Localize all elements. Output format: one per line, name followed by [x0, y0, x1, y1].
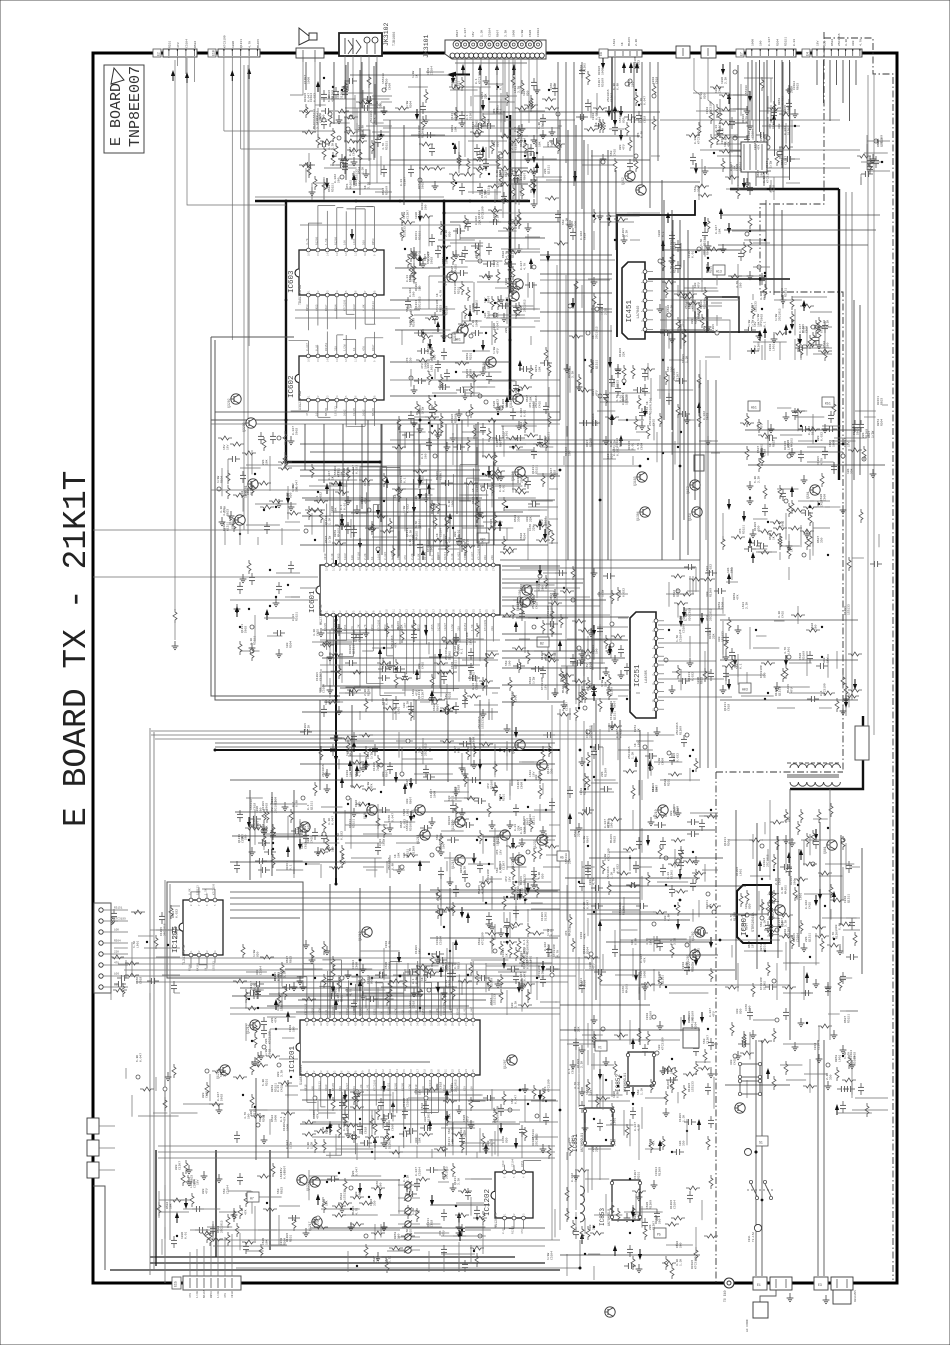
svg-text:10K: 10K — [415, 495, 418, 501]
svg-text:0.022: 0.022 — [640, 954, 643, 963]
svg-text:6.8K: 6.8K — [821, 326, 824, 333]
svg-text:1/2W: 1/2W — [774, 314, 778, 321]
svg-text:1.5K: 1.5K — [670, 266, 673, 273]
connector E7 — [746, 49, 796, 57]
svg-text:330: 330 — [515, 168, 518, 174]
svg-text:KTC3199: KTC3199 — [487, 869, 490, 882]
svg-text:R853: R853 — [701, 677, 704, 684]
svg-text:R1209: R1209 — [422, 129, 425, 138]
svg-text:C1207: C1207 — [320, 672, 323, 681]
svg-text:D602: D602 — [355, 800, 358, 807]
component cluster wires — [568, 277, 612, 338]
bold feed to IC451 — [617, 200, 695, 337]
svg-text:R3109: R3109 — [692, 1011, 695, 1020]
svg-text:R251: R251 — [781, 158, 784, 165]
wire channel y460 — [286, 465, 640, 467]
svg-text:3.3K: 3.3K — [781, 887, 784, 894]
svg-text:KTC3199: KTC3199 — [213, 883, 216, 895]
svg-text:47K: 47K — [313, 1218, 316, 1224]
svg-text:R504: R504 — [442, 257, 445, 264]
svg-text:47K: 47K — [284, 1116, 287, 1122]
svg-text:R853: R853 — [835, 1055, 838, 1062]
svg-text:0.01: 0.01 — [692, 251, 695, 258]
svg-text:0.047: 0.047 — [217, 1092, 220, 1101]
svg-text:47K: 47K — [769, 123, 772, 129]
svg-text:MA165: MA165 — [203, 1289, 206, 1298]
svg-text:1SS133: 1SS133 — [197, 885, 200, 895]
svg-text:16V: 16V — [500, 849, 503, 855]
svg-text:C455: C455 — [536, 602, 539, 609]
svg-text:1K: 1K — [592, 335, 595, 339]
svg-text:22K: 22K — [578, 831, 581, 837]
svg-text:0.022: 0.022 — [617, 447, 620, 456]
svg-text:R504: R504 — [290, 641, 293, 648]
svg-text:R607: R607 — [488, 296, 491, 303]
transistor Q1305 — [520, 597, 530, 607]
svg-text:560: 560 — [703, 1038, 706, 1044]
svg-text:C1207: C1207 — [407, 210, 410, 219]
svg-text:100: 100 — [443, 843, 446, 849]
svg-text:E10: E10 — [212, 50, 216, 56]
svg-text:0.1: 0.1 — [461, 648, 464, 654]
svg-text:R3151: R3151 — [386, 141, 389, 150]
svg-text:E BOARD: E BOARD — [108, 83, 125, 146]
svg-text:0.1: 0.1 — [670, 939, 673, 945]
svg-text:R607: R607 — [707, 248, 710, 255]
svg-text:R3109: R3109 — [332, 1007, 335, 1015]
svg-text:Q1211: Q1211 — [488, 186, 491, 195]
svg-text:330: 330 — [736, 1008, 739, 1014]
svg-text:10K: 10K — [341, 471, 344, 477]
svg-text:2SC1815: 2SC1815 — [590, 725, 593, 738]
bus wire CRT feed horizontal — [730, 188, 839, 191]
svg-text:R607: R607 — [500, 440, 503, 447]
svg-text:0.022: 0.022 — [692, 672, 695, 681]
svg-text:D602: D602 — [422, 182, 425, 189]
svg-text:C609: C609 — [806, 326, 809, 333]
svg-text:820: 820 — [704, 93, 707, 99]
svg-text:2.2K: 2.2K — [548, 437, 551, 444]
svg-text:47U: 47U — [796, 894, 799, 900]
svg-text:4.7K: 4.7K — [784, 647, 787, 654]
svg-text:R3151: R3151 — [785, 37, 788, 46]
svg-text:820: 820 — [175, 1164, 178, 1170]
svg-text:R1209: R1209 — [361, 1125, 364, 1134]
IC IC1205 — [179, 887, 223, 968]
svg-text:C3104: C3104 — [227, 1185, 230, 1194]
svg-text:R3109: R3109 — [497, 1113, 500, 1122]
svg-text:R504: R504 — [284, 1238, 287, 1245]
svg-text:560: 560 — [260, 807, 263, 813]
svg-text:47U: 47U — [497, 348, 500, 354]
component cluster wires — [664, 564, 738, 694]
svg-text:R3109: R3109 — [517, 474, 520, 483]
svg-text:R853: R853 — [442, 1172, 445, 1179]
right mid horizontals — [720, 619, 858, 621]
svg-text:C609: C609 — [325, 1084, 328, 1091]
svg-text:C1207: C1207 — [508, 249, 511, 258]
boxed net label H7 — [247, 1192, 259, 1202]
svg-text:560: 560 — [610, 150, 613, 156]
arrow left on net — [447, 73, 454, 77]
svg-text:R853: R853 — [778, 98, 781, 105]
svg-text:R3109: R3109 — [304, 93, 307, 102]
svg-text:JK3102: JK3102 — [383, 22, 390, 46]
svg-text:2SC1815: 2SC1815 — [370, 110, 373, 123]
svg-text:330: 330 — [419, 747, 422, 753]
svg-text:100: 100 — [415, 252, 418, 258]
transistor Q1306 — [522, 585, 532, 595]
svg-text:6.8K: 6.8K — [511, 887, 514, 894]
svg-text:2.2K: 2.2K — [581, 1061, 584, 1068]
svg-text:1SS133: 1SS133 — [344, 1189, 347, 1200]
svg-text:0.1: 0.1 — [292, 801, 295, 807]
svg-text:Q3183: Q3183 — [633, 476, 637, 486]
svg-text:C3104: C3104 — [655, 1167, 658, 1176]
component cluster wires — [392, 340, 553, 466]
svg-text:C818: C818 — [580, 65, 583, 72]
svg-text:47U: 47U — [593, 963, 596, 969]
svg-text:560: 560 — [443, 384, 446, 390]
svg-text:1/2W: 1/2W — [407, 1084, 411, 1091]
jack receptacle — [459, 53, 464, 58]
wires right of top transformer — [720, 214, 880, 216]
svg-text:KTC3199: KTC3199 — [425, 968, 428, 981]
svg-text:560: 560 — [542, 585, 545, 591]
svg-text:R3109: R3109 — [602, 78, 605, 87]
transistor Q1233 — [537, 835, 547, 845]
svg-text:C609: C609 — [646, 1202, 649, 1209]
svg-text:D1205: D1205 — [430, 351, 433, 360]
svg-text:R1209: R1209 — [353, 1007, 356, 1015]
svg-text:L601: L601 — [478, 624, 481, 631]
svg-text:L601: L601 — [515, 695, 518, 702]
svg-text:R504: R504 — [574, 830, 577, 837]
svg-text:6.8K: 6.8K — [613, 83, 616, 90]
svg-text:16V: 16V — [472, 31, 475, 37]
svg-text:R3109: R3109 — [386, 186, 389, 195]
svg-text:4.7K: 4.7K — [389, 941, 392, 948]
svg-text:C455: C455 — [550, 83, 553, 90]
svg-text:22K: 22K — [487, 981, 490, 987]
svg-text:MN1280-F: MN1280-F — [495, 1212, 499, 1228]
svg-text:820: 820 — [506, 1137, 509, 1143]
svg-text:R607: R607 — [325, 304, 328, 311]
svg-text:0.01: 0.01 — [284, 1172, 287, 1179]
svg-text:0.022: 0.022 — [337, 993, 340, 1002]
svg-text:3.3K: 3.3K — [845, 39, 848, 46]
svg-text:0.1: 0.1 — [403, 1176, 406, 1182]
svg-text:0.1: 0.1 — [454, 963, 457, 969]
boxed net label H01 — [452, 333, 464, 343]
svg-text:1/2W: 1/2W — [216, 1291, 220, 1298]
svg-text:D602: D602 — [421, 1103, 424, 1110]
svg-text:R1209: R1209 — [736, 867, 739, 876]
svg-text:KTC3199: KTC3199 — [378, 619, 381, 631]
svg-text:100: 100 — [521, 603, 524, 609]
svg-text:R3151: R3151 — [848, 1014, 851, 1023]
svg-text:R607: R607 — [456, 30, 459, 37]
svg-text:560: 560 — [277, 1188, 280, 1194]
svg-text:C455: C455 — [410, 1229, 413, 1236]
svg-text:C455: C455 — [311, 836, 314, 843]
svg-text:C818: C818 — [721, 137, 724, 144]
svg-text:MA165: MA165 — [628, 37, 631, 46]
svg-text:47U: 47U — [505, 876, 508, 882]
svg-text:47K: 47K — [415, 1089, 418, 1095]
svg-text:1SS133: 1SS133 — [406, 820, 409, 831]
svg-text:R607: R607 — [454, 746, 457, 753]
svg-text:560: 560 — [220, 1071, 223, 1077]
svg-text:6.8K: 6.8K — [722, 128, 725, 135]
arrows below E10 — [230, 70, 234, 76]
svg-text:16V: 16V — [227, 444, 230, 450]
svg-text:R3109: R3109 — [176, 930, 179, 939]
svg-text:R504: R504 — [728, 839, 731, 846]
svg-text:C3104: C3104 — [476, 681, 479, 690]
svg-text:R251: R251 — [418, 182, 421, 189]
svg-text:R504: R504 — [410, 101, 413, 108]
component cluster wires — [721, 499, 882, 580]
svg-text:R607: R607 — [817, 536, 820, 543]
svg-text:TDA9302PhD: TDA9302PhD — [298, 285, 303, 305]
jack pin circle — [486, 41, 494, 49]
svg-text:4.7K: 4.7K — [350, 989, 353, 996]
svg-text:820: 820 — [817, 435, 820, 441]
svg-text:MA165: MA165 — [332, 1083, 335, 1091]
svg-text:C1207: C1207 — [598, 78, 601, 87]
svg-text:10K: 10K — [311, 1086, 314, 1091]
svg-text:H5: H5 — [560, 856, 564, 860]
svg-text:C818: C818 — [554, 470, 557, 477]
component cluster wires — [302, 1081, 558, 1159]
connector E1 bottom — [753, 1277, 767, 1290]
transistor Q201 — [515, 740, 525, 750]
svg-text:D602: D602 — [520, 584, 523, 591]
svg-text:820: 820 — [257, 951, 260, 957]
svg-text:0.047: 0.047 — [634, 1122, 637, 1131]
svg-text:2.2K: 2.2K — [671, 305, 674, 312]
svg-text:0.047: 0.047 — [404, 623, 407, 631]
svg-text:47U: 47U — [698, 282, 701, 288]
svg-text:6.8K: 6.8K — [551, 140, 554, 147]
svg-text:820: 820 — [418, 408, 421, 414]
svg-text:Q1211: Q1211 — [848, 894, 851, 903]
isolation boundary dash-dot to right border — [824, 38, 893, 1280]
svg-text:4.7K: 4.7K — [328, 143, 331, 150]
svg-text:R3109: R3109 — [448, 816, 451, 825]
transistor Q3203 — [246, 418, 256, 428]
svg-text:1/2W: 1/2W — [264, 1049, 268, 1056]
svg-text:D1205: D1205 — [401, 1083, 404, 1091]
svg-text:6.8K: 6.8K — [307, 1142, 310, 1149]
svg-text:10K: 10K — [446, 258, 449, 264]
svg-text:E2: E2 — [157, 52, 161, 56]
svg-text:IC602: IC602 — [288, 375, 296, 398]
svg-text:R3151: R3151 — [785, 288, 788, 297]
svg-text:IC603: IC603 — [288, 270, 296, 293]
transistor Q1304 — [640, 507, 650, 517]
svg-text:10K: 10K — [613, 867, 616, 873]
svg-text:R3109: R3109 — [259, 1113, 262, 1122]
svg-text:C3104: C3104 — [310, 93, 313, 102]
svg-text:2SC1815: 2SC1815 — [446, 1166, 449, 1179]
svg-text:0.01: 0.01 — [578, 1082, 581, 1089]
svg-text:0.047: 0.047 — [799, 324, 802, 333]
svg-text:C1207: C1207 — [422, 690, 425, 699]
svg-text:100U: 100U — [308, 77, 311, 84]
connector E15 bottom — [183, 1276, 241, 1290]
component cluster wires — [300, 724, 558, 800]
svg-text:R504: R504 — [271, 1115, 274, 1122]
svg-text:R3109: R3109 — [598, 66, 601, 75]
svg-text:KTC3199: KTC3199 — [538, 965, 541, 978]
svg-text:E1: E1 — [757, 1283, 761, 1287]
svg-text:2.2K: 2.2K — [445, 230, 448, 237]
svg-text:100U: 100U — [493, 323, 496, 330]
svg-text:560: 560 — [493, 312, 496, 318]
resistor ladder below JK3101 — [498, 134, 512, 138]
svg-text:D1205: D1205 — [788, 126, 791, 135]
svg-text:R1209: R1209 — [466, 369, 469, 378]
svg-text:L601: L601 — [137, 941, 140, 948]
svg-text:R607: R607 — [748, 941, 751, 948]
svg-text:D1205: D1205 — [389, 1140, 392, 1149]
svg-text:47K: 47K — [493, 108, 496, 114]
svg-text:1SS133: 1SS133 — [494, 994, 497, 1005]
svg-text:100U: 100U — [232, 41, 235, 48]
svg-text:16V: 16V — [817, 40, 820, 46]
jack receptacle — [450, 53, 455, 58]
svg-text:6.8K: 6.8K — [635, 938, 638, 945]
svg-text:560: 560 — [736, 663, 739, 669]
boxed net label K51 — [822, 397, 834, 407]
svg-text:0.022: 0.022 — [346, 987, 349, 996]
svg-text:R251: R251 — [458, 287, 461, 294]
svg-text:4.7K: 4.7K — [557, 950, 560, 957]
transformer T801 windings — [787, 763, 840, 786]
svg-text:47U: 47U — [421, 363, 424, 369]
svg-text:R504: R504 — [172, 911, 175, 918]
svg-text:16V: 16V — [471, 1086, 474, 1091]
svg-text:Q3103: Q3103 — [453, 331, 457, 341]
svg-text:KTC3199: KTC3199 — [658, 971, 661, 984]
E12 pin — [99, 963, 103, 967]
svg-text:0.01: 0.01 — [292, 614, 295, 621]
wire mid horizontals y380-460 — [390, 379, 560, 381]
svg-text:0.022: 0.022 — [407, 504, 410, 513]
svg-text:R251: R251 — [271, 797, 274, 804]
svg-text:Q1211: Q1211 — [415, 300, 418, 309]
svg-text:47U: 47U — [713, 1011, 716, 1017]
svg-text:4.7K: 4.7K — [410, 779, 413, 786]
transistor Q501 — [248, 479, 258, 489]
svg-text:330: 330 — [415, 1137, 418, 1143]
svg-text:P5: P5 — [657, 1233, 661, 1237]
svg-text:R3151: R3151 — [425, 1101, 428, 1110]
svg-text:K51: K51 — [825, 402, 831, 406]
transistor Q3103 — [457, 327, 467, 337]
svg-text:C609: C609 — [493, 260, 496, 267]
connector E2 — [163, 49, 197, 57]
svg-text:Q1211: Q1211 — [580, 978, 583, 987]
svg-text:1.5K: 1.5K — [452, 1127, 455, 1134]
svg-text:C3104: C3104 — [551, 1251, 554, 1260]
svg-text:330: 330 — [758, 525, 761, 531]
svg-text:L601: L601 — [650, 398, 653, 405]
svg-text:C818: C818 — [644, 116, 647, 123]
svg-text:L601: L601 — [509, 326, 512, 333]
svg-text:R853: R853 — [271, 1085, 274, 1092]
svg-text:C1207: C1207 — [304, 75, 307, 84]
svg-text:1.5K: 1.5K — [683, 1115, 686, 1122]
svg-text:D602: D602 — [443, 1084, 446, 1091]
component cluster wires — [567, 807, 721, 1000]
svg-text:Q1202: Q1202 — [691, 931, 695, 941]
svg-text:Q1205: Q1205 — [411, 809, 415, 819]
svg-text:2.2K: 2.2K — [791, 86, 794, 93]
svg-text:0.047: 0.047 — [616, 729, 619, 738]
svg-text:0.022: 0.022 — [580, 231, 583, 240]
svg-text:C818: C818 — [689, 608, 692, 615]
svg-text:R251: R251 — [638, 1172, 641, 1179]
svg-text:C455: C455 — [773, 185, 776, 192]
svg-text:R607: R607 — [472, 497, 475, 504]
svg-text:R607: R607 — [497, 30, 500, 37]
svg-text:D1205: D1205 — [541, 912, 544, 921]
svg-text:C455: C455 — [524, 422, 527, 429]
svg-text:C1207: C1207 — [404, 177, 407, 186]
svg-text:22K: 22K — [352, 1170, 355, 1176]
svg-text:C455: C455 — [337, 92, 340, 99]
svg-text:22K: 22K — [623, 351, 626, 357]
svg-text:D1205: D1205 — [622, 228, 625, 237]
svg-text:47K: 47K — [710, 903, 713, 909]
svg-text:0.1: 0.1 — [536, 1134, 539, 1140]
svg-text:0.047: 0.047 — [471, 1007, 474, 1015]
svg-text:100: 100 — [415, 1010, 418, 1015]
svg-text:L601: L601 — [689, 302, 692, 309]
svg-text:330: 330 — [852, 40, 855, 46]
svg-text:47U: 47U — [189, 1293, 192, 1298]
svg-text:JK3101: JK3101 — [423, 34, 430, 58]
svg-text:1/2W: 1/2W — [195, 1291, 199, 1298]
svg-text:2SC1815: 2SC1815 — [164, 923, 167, 936]
svg-text:Q1211: Q1211 — [458, 81, 461, 90]
svg-text:0.01: 0.01 — [715, 125, 718, 132]
IC IC601 — [316, 461, 500, 695]
svg-text:R3109: R3109 — [784, 441, 787, 450]
svg-text:C609: C609 — [356, 962, 359, 969]
svg-text:4.7K: 4.7K — [646, 938, 649, 945]
jack receptacle — [516, 53, 521, 58]
svg-text:R251: R251 — [523, 947, 526, 954]
svg-text:47K: 47K — [439, 1230, 442, 1236]
svg-text:1SS133: 1SS133 — [334, 406, 337, 416]
wire channels y1240 — [213, 1239, 560, 1241]
extra horizontal wires band y560-720 right of IC601 — [502, 565, 560, 567]
svg-text:1/2W: 1/2W — [216, 476, 220, 483]
svg-text:3.3K: 3.3K — [368, 182, 371, 189]
svg-text:Q1211: Q1211 — [521, 888, 524, 897]
svg-text:1/2W: 1/2W — [252, 950, 256, 957]
connector below speaker — [296, 48, 324, 58]
svg-text:3.3K: 3.3K — [458, 1178, 461, 1185]
svg-text:R1209: R1209 — [577, 1059, 580, 1068]
svg-text:R607: R607 — [257, 821, 260, 828]
svg-text:2.2K: 2.2K — [827, 320, 830, 327]
svg-text:6.8K: 6.8K — [496, 83, 499, 90]
